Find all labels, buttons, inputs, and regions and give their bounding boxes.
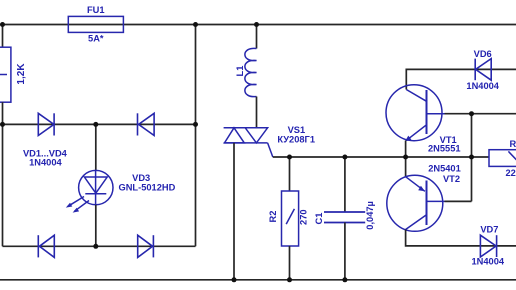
svg-text:FU1: FU1 xyxy=(87,5,105,15)
wire bridge top to LED xyxy=(95,124,97,170)
resistor R1 1,2K xyxy=(0,47,11,102)
wire node to resistor R right xyxy=(472,156,490,158)
svg-text:VD6: VD6 xyxy=(474,49,492,59)
wire LED to bridge bottom xyxy=(95,205,97,247)
svg-text:R2: R2 xyxy=(268,211,278,223)
svg-text:VS1: VS1 xyxy=(288,125,306,135)
diode bridge top-left (VD1...VD4) xyxy=(38,113,54,135)
junction gate node / VT1 VT2 emitters xyxy=(403,155,408,160)
diode VD6 xyxy=(475,59,491,81)
svg-text:1,2K: 1,2K xyxy=(16,63,27,85)
svg-text:C1: C1 xyxy=(314,213,324,225)
svg-text:5A*: 5A* xyxy=(88,34,104,44)
inductor L1 xyxy=(245,48,257,96)
svg-text:1N4004: 1N4004 xyxy=(29,158,62,168)
capacitor C1 0,047u xyxy=(324,212,365,223)
transistor VT1 2N5551 xyxy=(386,85,445,142)
svg-text:L1: L1 xyxy=(235,66,245,77)
svg-text:VT2: VT2 xyxy=(443,174,460,184)
svg-text:22К: 22К xyxy=(506,168,516,178)
svg-text:0,047µ: 0,047µ xyxy=(365,201,375,230)
svg-text:VD7: VD7 xyxy=(480,225,498,235)
wire bridge bottom row xyxy=(3,245,196,247)
svg-text:1N4004: 1N4004 xyxy=(472,257,505,267)
svg-text:2N5551: 2N5551 xyxy=(428,144,461,154)
wire gate node to R2 xyxy=(289,157,291,191)
triac VS1 xyxy=(224,128,273,157)
junction bottom rail / C1 xyxy=(342,277,347,282)
svg-text:1N4004: 1N4004 xyxy=(466,81,499,91)
wire bridge top row xyxy=(0,123,196,125)
junction gate node / cross link and R right xyxy=(469,155,474,160)
wire top rail xyxy=(0,24,516,26)
junction bridge bottom row / LED branch xyxy=(93,244,98,249)
diode bridge bottom-right (VD1...VD4) xyxy=(138,235,154,257)
wire L1 to triac xyxy=(256,97,258,128)
wire top rail to L1 xyxy=(256,25,258,49)
diode bridge bottom-left (VD1...VD4) xyxy=(38,235,54,257)
wire R2 to bottom rail xyxy=(289,246,291,280)
svg-text:2N5401: 2N5401 xyxy=(428,164,461,174)
wire resistor R1 to bridge top row xyxy=(2,102,4,124)
wire bridge right leg xyxy=(195,25,197,247)
wire gate node to C1 xyxy=(344,157,346,212)
junction top rail / R1 branch xyxy=(0,22,5,27)
junction VT1 base / cross link xyxy=(469,111,474,116)
junction gate node / R2 xyxy=(287,155,292,160)
wire VT2 collector to VD7 rail xyxy=(406,230,516,246)
resistor R2 270 xyxy=(282,191,299,246)
svg-text:GNL-5012HD: GNL-5012HD xyxy=(118,182,175,192)
wire VT1 emitter down to gate node xyxy=(405,141,407,158)
wire gate node horizontal xyxy=(273,156,472,158)
svg-text:R3: R3 xyxy=(510,139,516,149)
wire bottom rail xyxy=(0,279,516,281)
junction bridge top row / R1 leg xyxy=(0,122,5,127)
junction top rail / L1 branch xyxy=(254,22,259,27)
junction bridge top row / right leg xyxy=(193,122,198,127)
junction top rail / bridge right leg xyxy=(193,22,198,27)
diode VD7 xyxy=(480,235,496,257)
junction bridge top row / LED branch xyxy=(93,122,98,127)
wire VT2 base horizontal xyxy=(445,200,472,202)
wire cross link vertical xyxy=(471,114,473,202)
wire bridge left leg xyxy=(2,124,4,246)
wire VT1 base to right edge xyxy=(445,113,516,115)
wire VT1 collector up and VD6 rail xyxy=(406,69,516,89)
LED VD3 xyxy=(66,170,113,212)
transistor VT2 2N5401 xyxy=(387,175,445,231)
fuse FU1 xyxy=(68,16,123,32)
diode bridge top-right (VD1...VD4) xyxy=(138,113,155,135)
resistor R 22 (cut at right edge) xyxy=(489,150,516,167)
junction bottom rail / triac MT2 xyxy=(232,277,237,282)
junction gate node / C1 xyxy=(342,155,347,160)
svg-text:270: 270 xyxy=(298,209,308,225)
wire triac MT2 to bottom rail xyxy=(233,143,235,280)
wire from top rail to resistor R1 xyxy=(2,25,4,48)
svg-text:КУ208Г1: КУ208Г1 xyxy=(277,135,315,145)
wire C1 to bottom rail xyxy=(344,223,346,280)
wire VT2 emitter from gate node xyxy=(405,157,407,177)
junction bottom rail / R2 xyxy=(287,277,292,282)
